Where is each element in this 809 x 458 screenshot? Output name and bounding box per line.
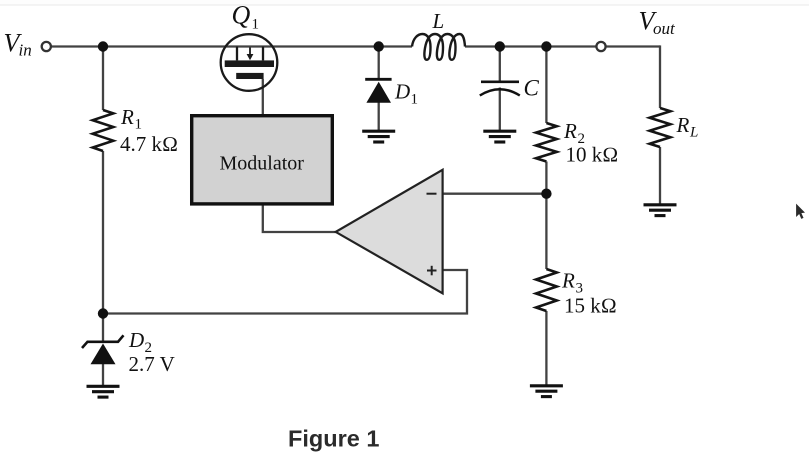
svg-text:1: 1 <box>411 92 419 108</box>
svg-text:R: R <box>563 119 577 143</box>
svg-text:2.7 V: 2.7 V <box>129 352 175 376</box>
svg-text:Figure 1: Figure 1 <box>288 426 379 452</box>
svg-text:R: R <box>120 105 134 129</box>
svg-text:1: 1 <box>252 17 260 33</box>
svg-text:D: D <box>128 328 144 352</box>
svg-text:15 kΩ: 15 kΩ <box>564 294 617 318</box>
svg-text:L: L <box>689 125 698 141</box>
svg-text:4.7 kΩ: 4.7 kΩ <box>120 132 178 156</box>
svg-text:Modulator: Modulator <box>220 153 305 175</box>
svg-text:R: R <box>561 269 575 293</box>
svg-text:R: R <box>676 113 690 137</box>
svg-text:in: in <box>19 41 32 60</box>
svg-text:1: 1 <box>135 117 143 133</box>
svg-text:Q: Q <box>232 1 251 30</box>
svg-text:D: D <box>394 80 410 104</box>
svg-text:10 kΩ: 10 kΩ <box>566 143 619 167</box>
svg-text:C: C <box>524 76 540 101</box>
svg-text:out: out <box>653 19 676 38</box>
svg-text:L: L <box>432 9 445 33</box>
